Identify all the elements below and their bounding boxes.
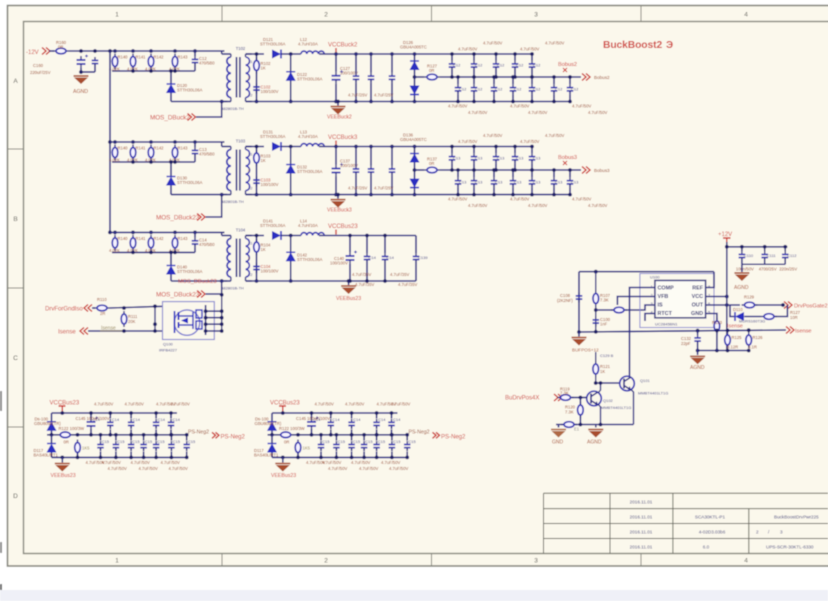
svg-text:VCCBus23: VCCBus23 xyxy=(328,224,358,230)
wire secondary divider xyxy=(256,54,258,102)
junction xyxy=(76,456,80,460)
wire xyxy=(512,77,514,84)
resistor R129 xyxy=(742,302,758,308)
junction xyxy=(220,322,224,326)
capacitor xyxy=(567,84,574,94)
svg-text:STTH30L06A: STTH30L06A xyxy=(297,76,323,81)
junction xyxy=(193,49,197,53)
capacitor C140 xyxy=(346,251,358,265)
svg-text:1K: 1K xyxy=(600,369,605,374)
svg-text:4700/25V: 4700/25V xyxy=(759,267,777,272)
wire xyxy=(473,94,475,101)
svg-text:C15: C15 xyxy=(117,439,125,444)
wire xyxy=(330,413,332,418)
svg-text:UPS-SCR-30KTL-6330: UPS-SCR-30KTL-6330 xyxy=(766,545,814,550)
wire xyxy=(493,187,495,194)
wire block3 top rail xyxy=(319,235,416,237)
junction xyxy=(154,433,158,437)
svg-text:BUFPOS+12: BUFPOS+12 xyxy=(572,348,599,353)
junction xyxy=(99,456,103,460)
resistor R102 xyxy=(254,58,260,74)
junction xyxy=(129,456,133,460)
junction xyxy=(335,456,339,460)
junction xyxy=(413,52,417,56)
capacitor xyxy=(389,166,396,176)
junction xyxy=(347,279,351,283)
junction xyxy=(193,231,197,235)
svg-text:C12: C12 xyxy=(533,63,541,68)
resistor R121 xyxy=(593,361,599,377)
capacitor xyxy=(567,177,574,187)
resistor R125 xyxy=(725,332,731,348)
ground AGND xyxy=(690,356,705,364)
svg-text:4.7uH/10A: 4.7uH/10A xyxy=(298,134,318,139)
resistor R120 xyxy=(112,54,118,70)
junction xyxy=(494,75,498,79)
junction xyxy=(413,75,417,79)
svg-text:Isense: Isense xyxy=(727,324,743,330)
svg-text:MOS_DBuck2: MOS_DBuck2 xyxy=(150,115,190,122)
svg-text:R122 100/3W: R122 100/3W xyxy=(59,426,85,431)
junction xyxy=(472,168,476,172)
svg-text:GBU8060(TR): GBU8060(TR) xyxy=(255,421,282,426)
svg-text:4.7uF/50V: 4.7uF/50V xyxy=(545,133,565,138)
wire xyxy=(391,435,393,441)
capacitor xyxy=(368,166,375,176)
wire xyxy=(109,429,111,434)
wire top rail xyxy=(579,271,714,273)
junction xyxy=(365,279,369,283)
wire xyxy=(553,94,555,101)
svg-text:C13: C13 xyxy=(459,179,467,184)
svg-text:4.7uF/50V: 4.7uF/50V xyxy=(528,203,548,208)
wire xyxy=(194,66,196,71)
junction xyxy=(93,49,97,53)
junction xyxy=(169,160,173,164)
svg-text:C13: C13 xyxy=(453,155,461,160)
svg-text:C14: C14 xyxy=(173,417,181,422)
junction xyxy=(131,251,135,255)
svg-text:100n/50V: 100n/50V xyxy=(736,267,754,272)
capacitor xyxy=(97,441,104,451)
junction xyxy=(289,279,293,283)
junction xyxy=(530,52,534,56)
capacitor C103 xyxy=(253,177,260,187)
svg-text:2: 2 xyxy=(756,530,759,535)
transformer xyxy=(222,54,252,102)
svg-text:MMBT4401LT1G: MMBT4401LT1G xyxy=(638,391,668,396)
svg-text:470/5B0: 470/5B0 xyxy=(199,61,215,66)
junction xyxy=(122,306,126,310)
svg-text:R142: R142 xyxy=(154,55,165,60)
capacitor xyxy=(353,73,360,83)
svg-text:Bobus3: Bobus3 xyxy=(558,155,577,161)
junction xyxy=(149,140,153,144)
junction xyxy=(50,433,54,437)
wire xyxy=(493,170,495,177)
wire xyxy=(512,170,514,177)
svg-text:C14: C14 xyxy=(353,417,361,422)
svg-text:2R: 2R xyxy=(100,311,105,316)
svg-text:4.7uF/50V: 4.7uF/50V xyxy=(108,466,128,471)
capacitor input bank xyxy=(192,237,199,247)
svg-text:VCC: VCC xyxy=(692,294,703,300)
junction xyxy=(89,411,93,415)
wire xyxy=(578,332,580,337)
svg-text:3: 3 xyxy=(780,530,783,535)
wire xyxy=(531,187,533,194)
wire xyxy=(355,147,357,166)
svg-text:C15: C15 xyxy=(378,439,386,444)
transistor drive section xyxy=(505,352,668,446)
wire OUT to port xyxy=(755,304,783,306)
capacitor C108 xyxy=(576,293,583,303)
junction xyxy=(513,145,517,149)
svg-text:C13: C13 xyxy=(516,155,524,160)
junction xyxy=(204,316,208,320)
wire xyxy=(114,233,116,234)
junction xyxy=(362,456,366,460)
capacitor input bank xyxy=(192,147,199,157)
svg-text:7.3K: 7.3K xyxy=(565,410,574,415)
resistor R111 xyxy=(121,311,127,327)
svg-text:C13: C13 xyxy=(555,179,563,184)
junction xyxy=(289,145,293,149)
svg-text:2016.11.01: 2016.11.01 xyxy=(630,545,653,550)
wire xyxy=(559,397,562,399)
wire xyxy=(473,187,475,194)
svg-text:+12V: +12V xyxy=(718,232,732,238)
wire xyxy=(49,50,54,52)
wire xyxy=(51,431,53,435)
junction xyxy=(220,100,224,104)
svg-text:4.7uF/50V: 4.7uF/50V xyxy=(520,47,540,52)
junction xyxy=(334,145,338,149)
svg-text:C13: C13 xyxy=(495,179,503,184)
svg-text:T103: T103 xyxy=(236,139,246,144)
wire xyxy=(495,71,497,78)
wire bottom rail (IS net) xyxy=(579,330,786,332)
wire xyxy=(697,331,699,335)
junction xyxy=(289,193,293,197)
wire xyxy=(391,147,393,166)
junction xyxy=(472,100,476,104)
port chevron xyxy=(188,114,196,121)
capacitor C112 xyxy=(782,251,789,261)
svg-text:R122 100/3W: R122 100/3W xyxy=(279,426,305,431)
svg-text:4.7uF/35V: 4.7uF/35V xyxy=(352,272,372,277)
svg-text:GBU4A005TC: GBU4A005TC xyxy=(400,137,427,142)
wire lower rail xyxy=(698,350,749,352)
ruler tick bottom xyxy=(640,554,642,567)
wire xyxy=(384,236,386,254)
junction xyxy=(450,52,454,56)
junction xyxy=(375,433,379,437)
junction xyxy=(456,168,460,172)
wire xyxy=(171,101,227,103)
junction xyxy=(530,145,534,149)
resistor R143 xyxy=(172,235,178,251)
wire xyxy=(335,54,337,72)
wire xyxy=(730,305,734,317)
wire xyxy=(271,435,273,444)
wire xyxy=(115,435,117,441)
svg-text:4.7uF/50V: 4.7uF/50V xyxy=(448,104,468,109)
svg-text:C12: C12 xyxy=(453,63,461,68)
svg-text:4: 4 xyxy=(744,12,748,19)
junction xyxy=(142,456,146,460)
capacitor C102 xyxy=(253,84,260,94)
svg-text:C139: C139 xyxy=(418,255,428,260)
wire xyxy=(281,235,301,237)
wire xyxy=(90,413,92,418)
port Bobus3 xyxy=(582,167,590,174)
wire xyxy=(531,71,533,78)
wire diode column xyxy=(414,147,416,195)
junction xyxy=(369,145,373,149)
svg-text:PS-Neg2: PS-Neg2 xyxy=(409,429,430,435)
resistor R123 xyxy=(172,54,178,70)
junction xyxy=(79,49,83,53)
ground AGND xyxy=(734,273,749,281)
wire xyxy=(572,397,588,399)
wire xyxy=(351,429,353,434)
junction xyxy=(413,145,417,149)
junction xyxy=(329,411,333,415)
junction xyxy=(594,330,598,334)
svg-text:C14: C14 xyxy=(133,417,141,422)
wire xyxy=(531,170,533,177)
svg-text:R129: R129 xyxy=(744,295,755,300)
svg-text:T102: T102 xyxy=(236,46,246,51)
wire R121 column xyxy=(595,352,597,383)
resistor R117 xyxy=(424,167,440,173)
junction xyxy=(289,100,293,104)
junction xyxy=(354,193,358,197)
junction xyxy=(456,193,460,197)
svg-text:C15: C15 xyxy=(393,439,401,444)
wire MOS pin xyxy=(206,317,222,319)
junction xyxy=(204,329,208,333)
capacitor xyxy=(333,441,340,451)
svg-text:C13: C13 xyxy=(533,179,541,184)
svg-text:C15: C15 xyxy=(132,439,140,444)
wire xyxy=(246,235,265,237)
svg-text:4.7uF/50V: 4.7uF/50V xyxy=(545,41,565,46)
svg-text:C12: C12 xyxy=(497,63,505,68)
wire VFB xyxy=(617,297,655,306)
wire xyxy=(531,77,533,84)
capacitor xyxy=(529,84,536,94)
wire xyxy=(221,232,223,235)
wire xyxy=(170,93,172,102)
ruler tick top xyxy=(640,6,642,22)
junction xyxy=(350,456,354,460)
wire xyxy=(194,157,196,162)
svg-text:4.7uF/50V: 4.7uF/50V xyxy=(468,203,488,208)
svg-text:C12: C12 xyxy=(475,63,483,68)
svg-text:C129 B: C129 B xyxy=(600,353,614,358)
junction xyxy=(131,231,135,235)
wire xyxy=(514,147,516,154)
junction xyxy=(390,52,394,56)
wire xyxy=(716,331,718,334)
junction xyxy=(319,456,323,460)
junction xyxy=(149,251,153,255)
svg-text:4.7uF/50V: 4.7uF/50V xyxy=(572,197,592,202)
svg-text:4-02D3.03b6: 4-02D3.03b6 xyxy=(699,530,726,535)
wire RTCT xyxy=(645,314,655,322)
capacitor xyxy=(404,441,411,451)
resistor xyxy=(75,440,81,456)
junction xyxy=(89,433,93,437)
junction xyxy=(375,433,379,437)
svg-text:Э: Э xyxy=(666,40,673,51)
diode D124 xyxy=(410,61,420,70)
diode D134 xyxy=(410,154,420,163)
junction xyxy=(154,456,158,460)
wire xyxy=(51,435,53,444)
wire xyxy=(194,247,196,252)
svg-text:C15: C15 xyxy=(338,439,346,444)
wire xyxy=(406,452,408,458)
capacitor xyxy=(455,84,462,94)
svg-text:MMBT4401LT1G: MMBT4401LT1G xyxy=(601,405,631,410)
svg-text:4.02K: 4.02K xyxy=(109,158,120,163)
svg-text:STTH30L06A: STTH30L06A xyxy=(260,42,286,47)
svg-text:RTCT: RTCT xyxy=(658,311,673,317)
wire xyxy=(335,84,337,102)
svg-text:1K5: 1K5 xyxy=(303,446,311,451)
junction xyxy=(173,140,177,144)
bottom capacitor bank A xyxy=(34,401,246,480)
wire xyxy=(206,281,222,294)
wire to IS pin xyxy=(625,305,655,310)
resistor R127 xyxy=(761,314,777,320)
svg-text:C13: C13 xyxy=(533,155,541,160)
ruler tick top xyxy=(221,6,223,22)
junction xyxy=(350,411,354,415)
svg-text:IRFB4227: IRFB4227 xyxy=(159,348,178,353)
svg-text:MOS_DBuck23: MOS_DBuck23 xyxy=(178,279,217,285)
junction xyxy=(472,168,476,172)
capacitor xyxy=(449,153,456,163)
svg-text:0.12R: 0.12R xyxy=(727,345,738,350)
wire xyxy=(473,170,475,177)
junction xyxy=(60,456,64,460)
svg-text:BuckBoost2: BuckBoost2 xyxy=(603,40,662,51)
svg-text:Bobus3: Bobus3 xyxy=(594,168,610,173)
wire xyxy=(553,187,555,194)
wire xyxy=(51,413,53,422)
port chevron xyxy=(84,305,92,312)
svg-text:(2K2NF): (2K2NF) xyxy=(557,298,573,303)
wire xyxy=(553,77,555,84)
svg-text:MOS_DBuck23: MOS_DBuck23 xyxy=(156,292,200,299)
svg-text:GND: GND xyxy=(691,311,703,317)
wire mid rail xyxy=(47,434,188,436)
junction xyxy=(289,234,293,238)
svg-text:B82801B-TH: B82801B-TH xyxy=(221,106,244,111)
svg-text:C13: C13 xyxy=(571,179,579,184)
wire xyxy=(335,435,337,441)
wire xyxy=(569,170,571,177)
title block xyxy=(544,493,828,553)
junction xyxy=(108,49,112,53)
diode D117 xyxy=(267,444,277,453)
svg-text:C12: C12 xyxy=(514,86,522,91)
diode D142 freewheel xyxy=(286,252,296,261)
port chevron xyxy=(554,394,562,401)
junction xyxy=(747,328,751,332)
wire xyxy=(355,54,357,73)
diode D141 xyxy=(272,231,281,240)
svg-text:BuckBoostDrvPwr225: BuckBoostDrvPwr225 xyxy=(774,515,819,520)
diode D122 freewheel xyxy=(286,72,296,81)
junction xyxy=(450,145,454,149)
junction xyxy=(354,100,358,104)
wire xyxy=(775,305,787,317)
inductor L13 xyxy=(301,144,324,147)
wire xyxy=(391,452,393,458)
svg-text:DrvPosGate2: DrvPosGate2 xyxy=(794,304,828,310)
ground AGND xyxy=(588,430,603,438)
wire xyxy=(457,170,459,177)
wire xyxy=(531,94,533,101)
svg-text:4.7uF/50V: 4.7uF/50V xyxy=(510,104,530,109)
transformer xyxy=(222,236,252,282)
junction xyxy=(763,245,767,249)
capacitor input bank xyxy=(192,56,199,66)
wire xyxy=(415,169,425,171)
junction xyxy=(173,69,177,73)
svg-text:C12: C12 xyxy=(495,86,503,91)
svg-text:C145 100uF/100V: C145 100uF/100V xyxy=(76,416,110,421)
junction xyxy=(568,75,572,79)
svg-text:X1: X1 xyxy=(248,60,252,64)
wire xyxy=(170,71,172,84)
svg-text:4.7uF/50V: 4.7uF/50V xyxy=(389,466,409,471)
svg-text:R143: R143 xyxy=(178,236,189,241)
wire xyxy=(349,264,351,281)
junction xyxy=(577,330,581,334)
junction xyxy=(369,52,373,56)
junction xyxy=(568,168,572,172)
junction xyxy=(599,423,603,427)
wire xyxy=(406,435,408,441)
junction xyxy=(579,396,583,400)
wire xyxy=(376,452,378,458)
svg-text:Bobus2: Bobus2 xyxy=(594,75,610,80)
svg-text:3: 3 xyxy=(534,558,538,565)
wire block3 right cap xyxy=(415,236,417,254)
wire xyxy=(366,263,368,281)
svg-text:AGND: AGND xyxy=(587,440,602,446)
junction xyxy=(220,193,224,197)
wire xyxy=(531,54,533,61)
junction xyxy=(114,433,118,437)
ruler tick bottom xyxy=(221,554,223,567)
diode D130 xyxy=(166,177,176,186)
junction xyxy=(594,381,598,385)
wire xyxy=(716,334,718,351)
junction xyxy=(456,75,460,79)
capacitor xyxy=(449,61,456,71)
wire xyxy=(451,71,453,78)
capacitor xyxy=(551,84,558,94)
junction xyxy=(348,234,352,238)
junction xyxy=(513,52,517,56)
